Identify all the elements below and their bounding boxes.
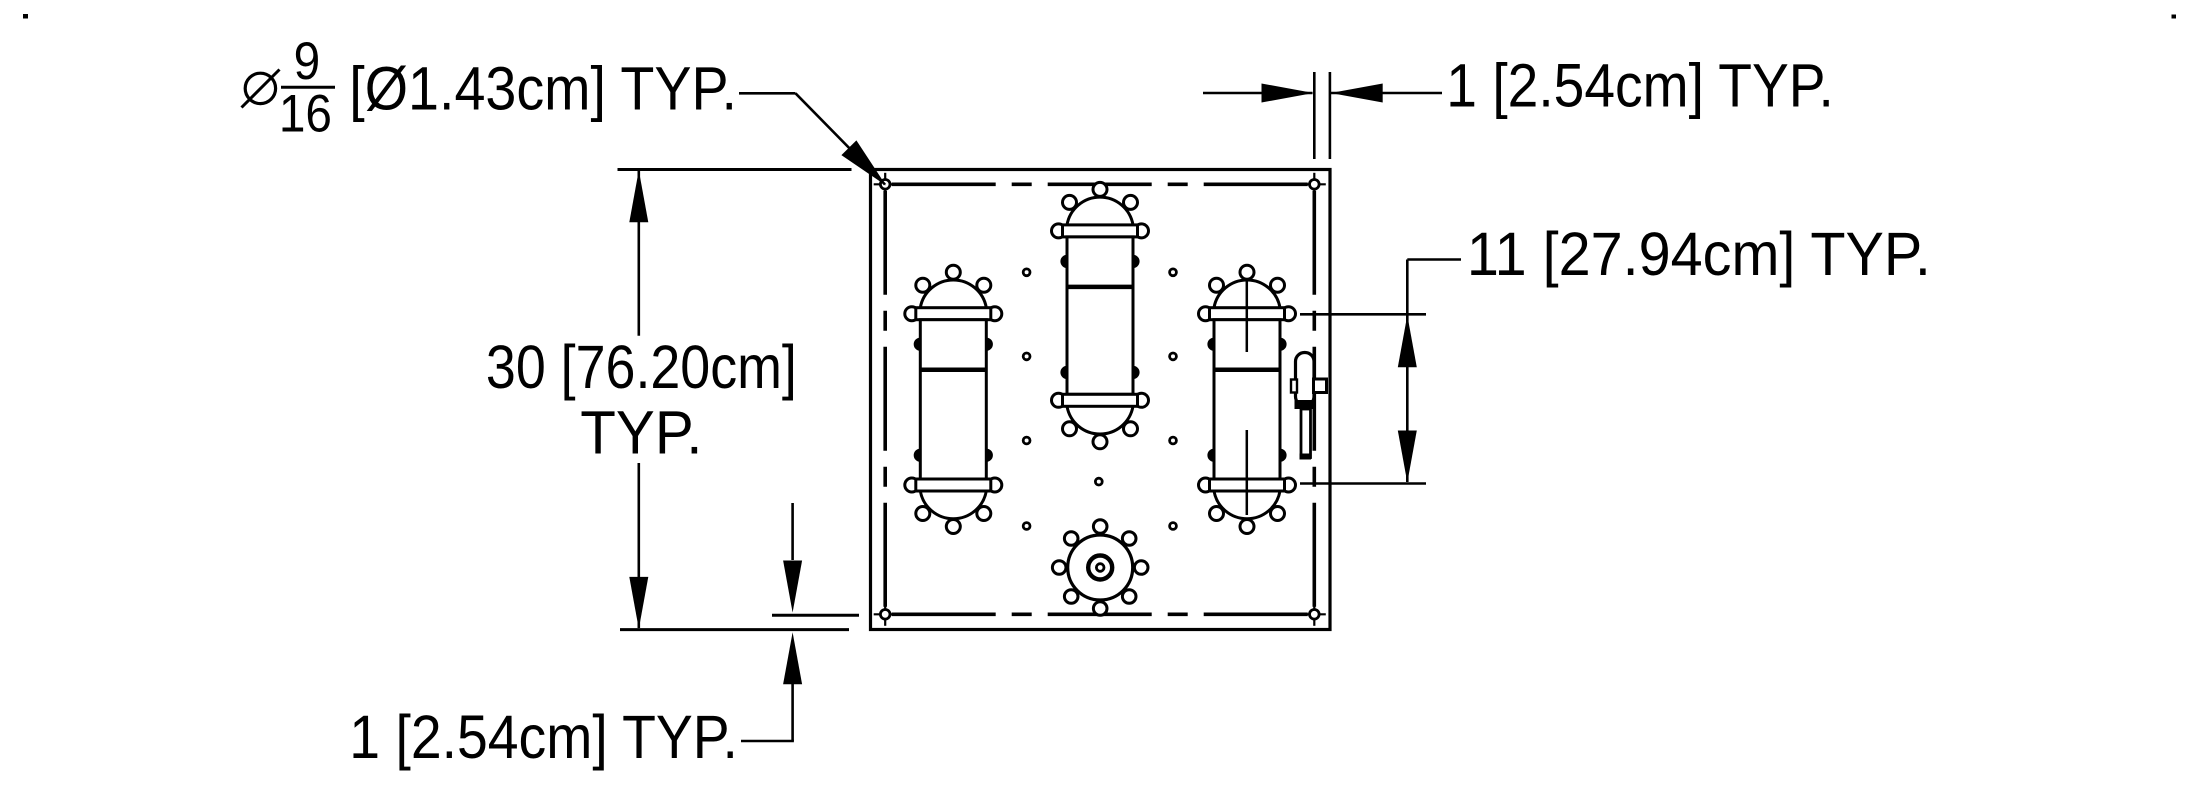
svg-text:11 [27.94cm] TYP.: 11 [27.94cm] TYP.: [1467, 219, 1931, 288]
valve handle right tab: [1314, 379, 1327, 393]
round flange center hole: [1096, 564, 1104, 572]
vessel-right side bolts: [1209, 339, 1220, 350]
vessel-right bottom dome: [1214, 491, 1280, 519]
vessel-center body: [1067, 237, 1133, 394]
vessel-left top dome: [920, 280, 986, 308]
dim-11 dimension line: [1406, 260, 1409, 483]
vessel-left bottom flange bolts: [905, 478, 919, 492]
vessel-left top flange bar: [916, 308, 991, 320]
dim-1top extension line left: [1313, 72, 1316, 159]
dim-11 arrow down: [1398, 431, 1417, 483]
valve stem: [1301, 409, 1311, 458]
valve handle hub: [1295, 400, 1315, 409]
panel plate outline: [871, 170, 1331, 630]
dashed bolt-line top: [892, 183, 1308, 187]
svg-text:1 [2.54cm] TYP.: 1 [2.54cm] TYP.: [1446, 52, 1834, 120]
vessel-center side bolts: [1062, 256, 1073, 267]
valve handle loop: [1296, 353, 1315, 406]
svg-text:[Ø1.43cm] TYP.: [Ø1.43cm] TYP.: [349, 55, 737, 123]
corner mounting hole bottom-left: [874, 613, 897, 615]
vessel-center bottom dome: [1067, 406, 1133, 434]
vessel-left bottom dome bolts: [946, 520, 960, 534]
dim-1top left tail: [1203, 92, 1313, 95]
center grid hole: [1095, 478, 1102, 485]
vessel-center top flange bolts: [1052, 224, 1066, 238]
dashed bolt-line right: [1313, 191, 1317, 608]
svg-text:1 [2.54cm] TYP.: 1 [2.54cm] TYP.: [349, 704, 738, 772]
dim-1bot lower tail: [791, 684, 794, 742]
dim-1bot upper tail: [791, 503, 794, 560]
round flange inner ring: [1088, 556, 1112, 580]
vessel-center top flange bar: [1063, 225, 1138, 237]
dim-30 dimension line lower segment: [637, 463, 640, 628]
svg-text:30 [76.20cm]: 30 [76.20cm]: [486, 334, 797, 402]
vessel-center top dome bolts: [1093, 182, 1107, 196]
vessel-right band seam: [1214, 367, 1280, 372]
vessel-left side bolts: [915, 339, 926, 350]
dim-1top extension line right: [1329, 72, 1332, 159]
hole callout leader: [739, 92, 796, 95]
vessel-center bottom flange bar: [1063, 394, 1138, 406]
vessel-right bottom flange bolts: [1199, 478, 1213, 492]
corner mounting hole top-left: [874, 183, 897, 185]
vessel-left bottom flange bar: [916, 479, 991, 491]
panel grid holes: [1023, 269, 1030, 276]
dim-11 leader: [1407, 258, 1461, 261]
dim-11 bottom extension line: [1300, 482, 1426, 485]
vessel-left body: [920, 320, 986, 479]
vessel-left top flange bolts: [905, 307, 919, 321]
hole callout arrowhead: [841, 140, 886, 185]
round flange bolts: [1134, 561, 1148, 575]
corner mounting hole bottom-right: [1303, 613, 1326, 615]
dashed bolt-line left: [883, 191, 887, 608]
svg-text:16: 16: [279, 84, 332, 143]
dim-30 arrow down: [629, 577, 648, 629]
vessel-right top flange bar: [1210, 308, 1285, 320]
round flange body: [1068, 535, 1133, 600]
dim-1top arrow left: [1331, 84, 1383, 103]
vessel-right bottom flange bar: [1210, 479, 1285, 491]
fraction bar: [281, 86, 335, 89]
dim-1bot extension line: [772, 614, 859, 617]
vessel-right body: [1214, 320, 1280, 479]
dim-11 top extension line: [1300, 313, 1426, 316]
svg-text:TYP.: TYP.: [580, 398, 702, 466]
valve handle left tab: [1291, 380, 1297, 393]
vessel-left bottom dome: [920, 491, 986, 519]
vessel-center bottom flange bolts: [1052, 393, 1066, 407]
dim-1bot leader: [741, 740, 794, 743]
dim-30 bottom extension line: [620, 628, 849, 631]
dim-1bot arrow down: [783, 561, 802, 613]
vessel-left top dome bolts: [946, 265, 960, 279]
svg-text:9: 9: [294, 32, 321, 91]
dim-1top arrow right: [1262, 84, 1314, 103]
stray speck top-left: [23, 14, 28, 19]
dim-1top right tail: [1331, 92, 1442, 95]
corner mounting hole top-right: [1303, 183, 1326, 185]
dim-1bot arrow up: [783, 632, 802, 684]
hole diameter symbol: [245, 73, 275, 103]
stray speck top-right: [2172, 15, 2177, 19]
vessel-center top dome: [1067, 197, 1133, 225]
vessel-center band seam: [1067, 285, 1133, 290]
dashed bolt-line bottom: [892, 612, 1308, 616]
vessel-right centerline marks: [1246, 280, 1249, 352]
vessel-right top flange bolts: [1199, 307, 1213, 321]
vessel-right top dome: [1214, 280, 1280, 308]
vessel-right bottom dome bolts: [1240, 520, 1254, 534]
dim-30 top extension line: [618, 168, 852, 171]
valve stem foot: [1300, 454, 1312, 460]
dim-11 arrow up: [1398, 315, 1417, 367]
dim-30 dimension line upper segment: [637, 171, 640, 336]
vessel-center bottom dome bolts: [1093, 435, 1107, 449]
vessel-left band seam: [920, 367, 986, 372]
vessel-right top dome bolts: [1240, 265, 1254, 279]
dim-30 arrow up: [629, 170, 648, 222]
